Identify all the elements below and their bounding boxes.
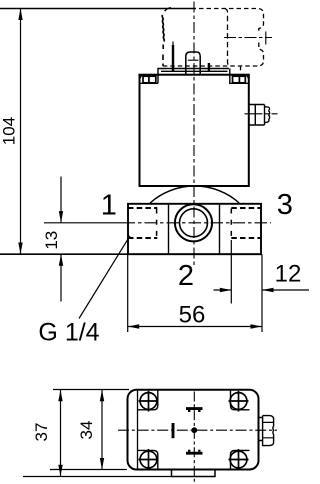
coil side stub centerline	[245, 113, 278, 115]
terminal pin left	[172, 42, 174, 48]
port 1 hidden hole dashed	[128, 208, 157, 238]
dimension 34 line	[101, 390, 103, 469]
svg-text:2: 2	[178, 260, 194, 292]
port 2 outer circle	[175, 204, 212, 241]
svg-text:37: 37	[32, 423, 51, 442]
extension line bottom view top	[53, 389, 129, 391]
coil yoke tab left	[140, 82, 159, 84]
arrow 12 right-side pointing left	[262, 288, 274, 292]
connector horizontal centerline	[224, 37, 272, 39]
connector bottom step tick	[240, 66, 242, 70]
svg-text:104: 104	[0, 117, 19, 145]
wire top extension line of dimension 104	[0, 8, 196, 10]
connector centerline cross tick	[265, 32, 267, 45]
coil side stub jagged outer edge	[265, 107, 270, 123]
arrow 13 up	[59, 254, 63, 266]
svg-text:13: 13	[42, 231, 61, 250]
extension line body left	[127, 254, 129, 332]
svg-text:34: 34	[77, 421, 96, 440]
connector plug inner vertical dashed line	[225, 9, 231, 67]
svg-text:12: 12	[275, 261, 302, 288]
arrow 34 bottom	[100, 458, 104, 470]
hidden port mark top	[186, 407, 203, 410]
bottom mounting tab	[172, 470, 216, 477]
hidden slot bar	[172, 423, 175, 438]
arrow 104 bottom	[18, 243, 22, 255]
extension line tab bottom 37	[23, 476, 172, 478]
svg-text:3: 3	[277, 189, 293, 221]
bottom view horizontal centerline	[118, 429, 277, 431]
terminal pin right	[208, 63, 210, 71]
arrow 104 top	[18, 9, 22, 21]
dimension 12 line	[214, 289, 310, 291]
bottom view inner step line	[137, 391, 139, 469]
coil corner chamfer left	[140, 75, 143, 79]
coil side connector stub	[249, 105, 265, 126]
mounting hole top-left	[138, 391, 159, 412]
svg-text:1: 1	[101, 190, 117, 222]
connector plug dashed left curve	[165, 8, 171, 12]
arrow 13 down	[59, 211, 63, 223]
bottom view body outline	[128, 390, 259, 470]
valve body	[128, 204, 261, 254]
arrow 37 bottom	[58, 465, 62, 477]
arrow 37 top	[58, 390, 62, 402]
bottom view side stub	[259, 418, 263, 441]
dome arc between coil and valve body	[150, 186, 239, 203]
coil yoke tab right	[230, 69, 249, 84]
bottom view vertical centerline	[193, 392, 195, 484]
connector plug left zigzag edge	[162, 15, 164, 41]
port boss left vertical	[168, 204, 170, 254]
arrow 34 top	[100, 390, 104, 402]
center pilot circle	[191, 427, 197, 433]
dimension 56 line	[128, 326, 262, 328]
port 3 hidden hole dashed	[231, 208, 261, 238]
connector plug dashed lower-right outline	[163, 43, 264, 67]
svg-text:G 1/4: G 1/4	[38, 319, 99, 347]
coil body	[140, 75, 249, 186]
arrow 12 left-side pointing right	[220, 288, 232, 292]
extension line port3 end	[230, 240, 232, 304]
mounting hole bottom-left	[138, 449, 159, 470]
arrow 56 left	[128, 324, 140, 328]
horizontal port centerline	[44, 222, 123, 224]
svg-text:56: 56	[179, 302, 206, 329]
leader line G 1/4	[79, 236, 130, 319]
mounting hole top-right	[229, 391, 250, 412]
connector plug dashed top outline	[199, 9, 264, 34]
armature tube cap	[186, 52, 200, 75]
node vertical centerline main view	[193, 2, 195, 267]
extension line body bottom 34	[50, 469, 127, 471]
dimension 37 line	[60, 390, 62, 476]
dimension 13 upper line	[60, 177, 62, 223]
coil corner chamfer right	[246, 75, 249, 79]
mounting hole bottom-right	[229, 449, 250, 470]
extension line body right	[261, 254, 263, 332]
arrow 56 right	[251, 324, 263, 328]
wire bottom extension line of dimension 104	[0, 253, 261, 255]
port boss right vertical	[219, 204, 221, 254]
hidden port mark bottom	[186, 452, 203, 455]
coil raised top section	[158, 69, 229, 84]
dimension 13 lower line	[60, 254, 62, 301]
port 2 inner circle	[180, 209, 208, 237]
dimension 104 line	[20, 9, 22, 255]
arrows	[18, 9, 273, 329]
